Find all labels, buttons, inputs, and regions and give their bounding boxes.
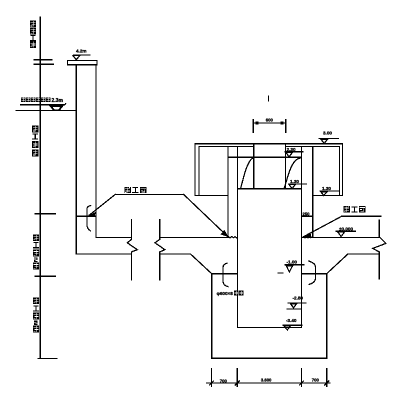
svg-text:4.2m: 4.2m (76, 49, 86, 54)
svg-text:700: 700 (312, 377, 320, 382)
svg-text:2.3m: 2.3m (52, 98, 64, 104)
svg-text:2.30: 2.30 (287, 147, 296, 152)
svg-text:1.30: 1.30 (290, 179, 299, 184)
svg-text:3.00: 3.00 (323, 131, 332, 136)
svg-text:-2.80: -2.80 (293, 296, 304, 301)
svg-text:1.30: 1.30 (322, 186, 331, 191)
svg-text:±0.000: ±0.000 (339, 227, 353, 232)
svg-text:250: 250 (303, 212, 311, 217)
svg-text:-3.40: -3.40 (286, 318, 297, 323)
svg-text:φ600×8: φ600×8 (217, 291, 234, 296)
svg-text:600: 600 (266, 118, 274, 123)
svg-text:700: 700 (220, 378, 228, 383)
svg-text:-1.00: -1.00 (287, 259, 298, 264)
svg-text:3.600: 3.600 (261, 377, 272, 382)
